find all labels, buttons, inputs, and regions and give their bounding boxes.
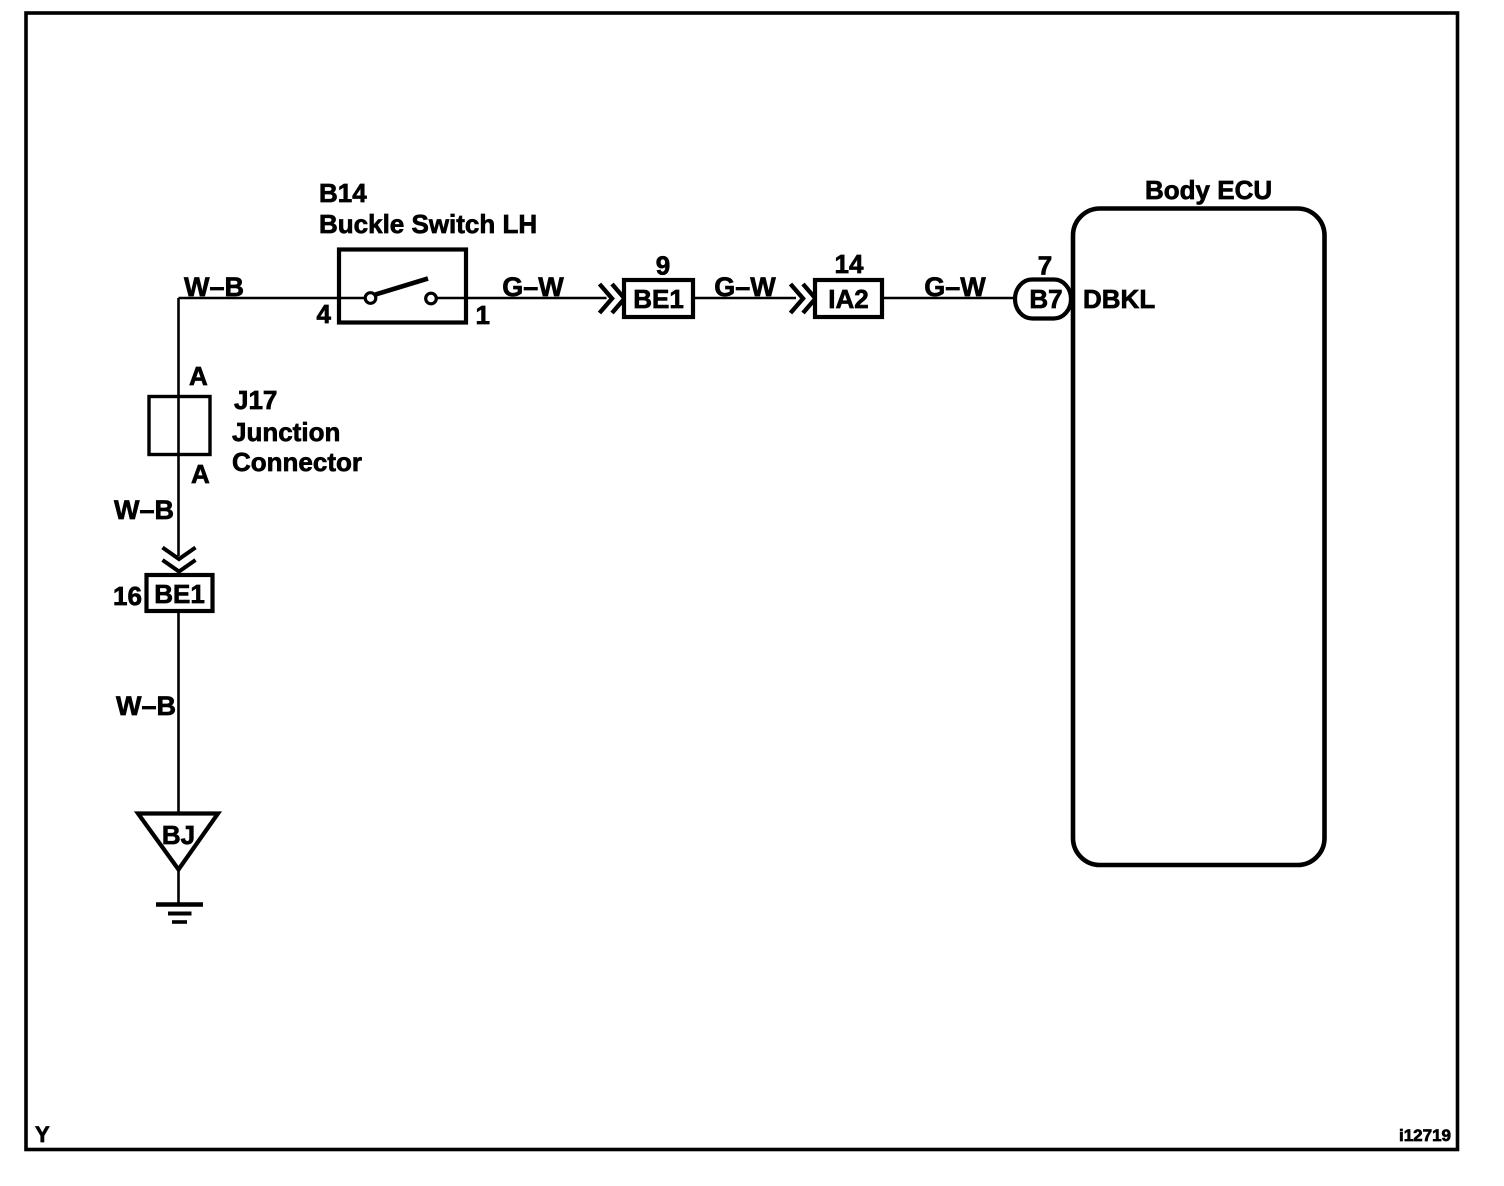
svg-text:IA2: IA2 (828, 284, 868, 314)
wire G-W from switch to BE1 connector (466, 297, 607, 300)
svg-text:A: A (191, 459, 210, 489)
svg-text:B7: B7 (1029, 284, 1062, 314)
svg-text:BJ: BJ (162, 820, 195, 850)
wire W-B from BE1 to ground junction BJ (177, 613, 180, 814)
svg-text:Y: Y (35, 1122, 50, 1147)
svg-text:G–W: G–W (502, 272, 564, 302)
wire from BJ to ground (177, 870, 180, 904)
ground (156, 905, 203, 923)
switch B14 Buckle Switch LH (339, 250, 466, 323)
svg-text:16: 16 (113, 581, 142, 611)
svg-text:9: 9 (656, 251, 670, 281)
connector chevrons into BE1 (600, 284, 625, 313)
ground junction triangle BJ (138, 814, 218, 870)
svg-text:G–W: G–W (924, 272, 986, 302)
svg-text:i12719: i12719 (1399, 1126, 1451, 1145)
connector chevrons into IA2 (791, 284, 816, 313)
svg-text:J17: J17 (234, 385, 277, 415)
svg-text:W–B: W–B (114, 495, 174, 525)
wire G-W from BE1 to IA2 (693, 297, 796, 300)
svg-text:4: 4 (317, 299, 332, 329)
connector B7 pin 7 (oval) (1015, 280, 1071, 319)
svg-text:G–W: G–W (714, 272, 776, 302)
svg-text:DBKL: DBKL (1083, 284, 1155, 314)
wire G-W from IA2 to B7 (882, 297, 1016, 300)
junction connector J17 (149, 397, 210, 455)
connector BE1 pin 16 (147, 575, 213, 611)
svg-text:BE1: BE1 (154, 579, 205, 609)
svg-text:B14: B14 (319, 178, 367, 208)
svg-text:7: 7 (1038, 251, 1052, 281)
svg-text:Buckle Switch LH: Buckle Switch LH (319, 209, 537, 239)
svg-text:Junction: Junction (232, 417, 340, 447)
connector BE1 pin 9 (624, 280, 693, 317)
svg-text:Connector: Connector (232, 447, 362, 477)
svg-text:A: A (189, 361, 208, 391)
svg-text:14: 14 (835, 249, 864, 279)
connector chevrons into BE1 pin 16 (163, 548, 196, 572)
svg-text:W–B: W–B (184, 272, 244, 302)
svg-text:BE1: BE1 (633, 284, 684, 314)
Body ECU (1073, 209, 1325, 866)
svg-text:W–B: W–B (116, 691, 176, 721)
svg-text:1: 1 (476, 300, 490, 330)
svg-text:Body ECU: Body ECU (1145, 175, 1272, 205)
wire W-B vertical from corner to J17 and BE1 (177, 298, 180, 556)
connector IA2 pin 14 (815, 280, 882, 317)
wire W-B horizontal from branch corner to switch B14 pin 4 (179, 297, 340, 300)
